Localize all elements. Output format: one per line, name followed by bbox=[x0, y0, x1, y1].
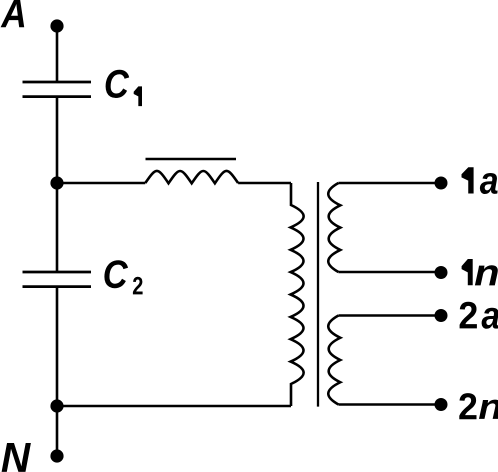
label 1n letter n bbox=[475, 265, 498, 285]
label C1 letter bbox=[106, 70, 130, 98]
terminal 2n bbox=[435, 398, 448, 411]
capacitor C1 bbox=[23, 82, 92, 97]
junction node 1 bbox=[50, 176, 63, 189]
terminal 2a bbox=[435, 309, 448, 322]
wire A to C1 bbox=[56, 26, 59, 82]
node label A bbox=[1, 0, 25, 27]
label C2 letter bbox=[104, 260, 128, 288]
transformer core bbox=[317, 182, 319, 407]
inductor core bar bbox=[146, 158, 237, 160]
wire junction 2 to N bbox=[56, 406, 59, 456]
label 2n digit 2 bbox=[459, 393, 476, 419]
secondary winding 2 bbox=[328, 316, 340, 405]
terminal A bbox=[50, 19, 63, 32]
label 1a digit 1 bbox=[462, 167, 474, 193]
wire junction 1 to C2 bbox=[56, 183, 59, 272]
label C2 subscript 2 bbox=[133, 277, 143, 295]
wire inductor to transformer primary bbox=[238, 182, 291, 185]
wire C2 to junction 2 bbox=[56, 287, 59, 406]
transformer primary winding bbox=[291, 183, 304, 406]
wire lead 1a bbox=[338, 182, 441, 185]
terminal 1a bbox=[435, 177, 448, 190]
wire lead 2a bbox=[338, 314, 441, 317]
capacitor C2 bbox=[23, 272, 92, 287]
label 2n letter n bbox=[479, 400, 498, 419]
junction node 2 bbox=[50, 399, 63, 412]
wire C1 to junction bbox=[56, 97, 59, 183]
label 2a letter a bbox=[482, 308, 498, 329]
wire primary bottom to junction 2 bbox=[57, 405, 291, 408]
wire junction to inductor bbox=[57, 182, 145, 185]
wire lead 2n bbox=[338, 403, 441, 406]
label 1n digit 1 bbox=[462, 259, 473, 285]
label 2a digit 2 bbox=[460, 302, 477, 329]
terminal N bbox=[50, 449, 63, 462]
node label N bbox=[2, 443, 31, 472]
terminal 1n bbox=[435, 266, 448, 279]
label 1a letter a bbox=[480, 173, 498, 194]
label C1 subscript 1 bbox=[134, 86, 142, 106]
secondary winding 1 bbox=[328, 183, 340, 272]
wire lead 1n bbox=[338, 271, 441, 274]
inductor L bbox=[145, 171, 238, 183]
